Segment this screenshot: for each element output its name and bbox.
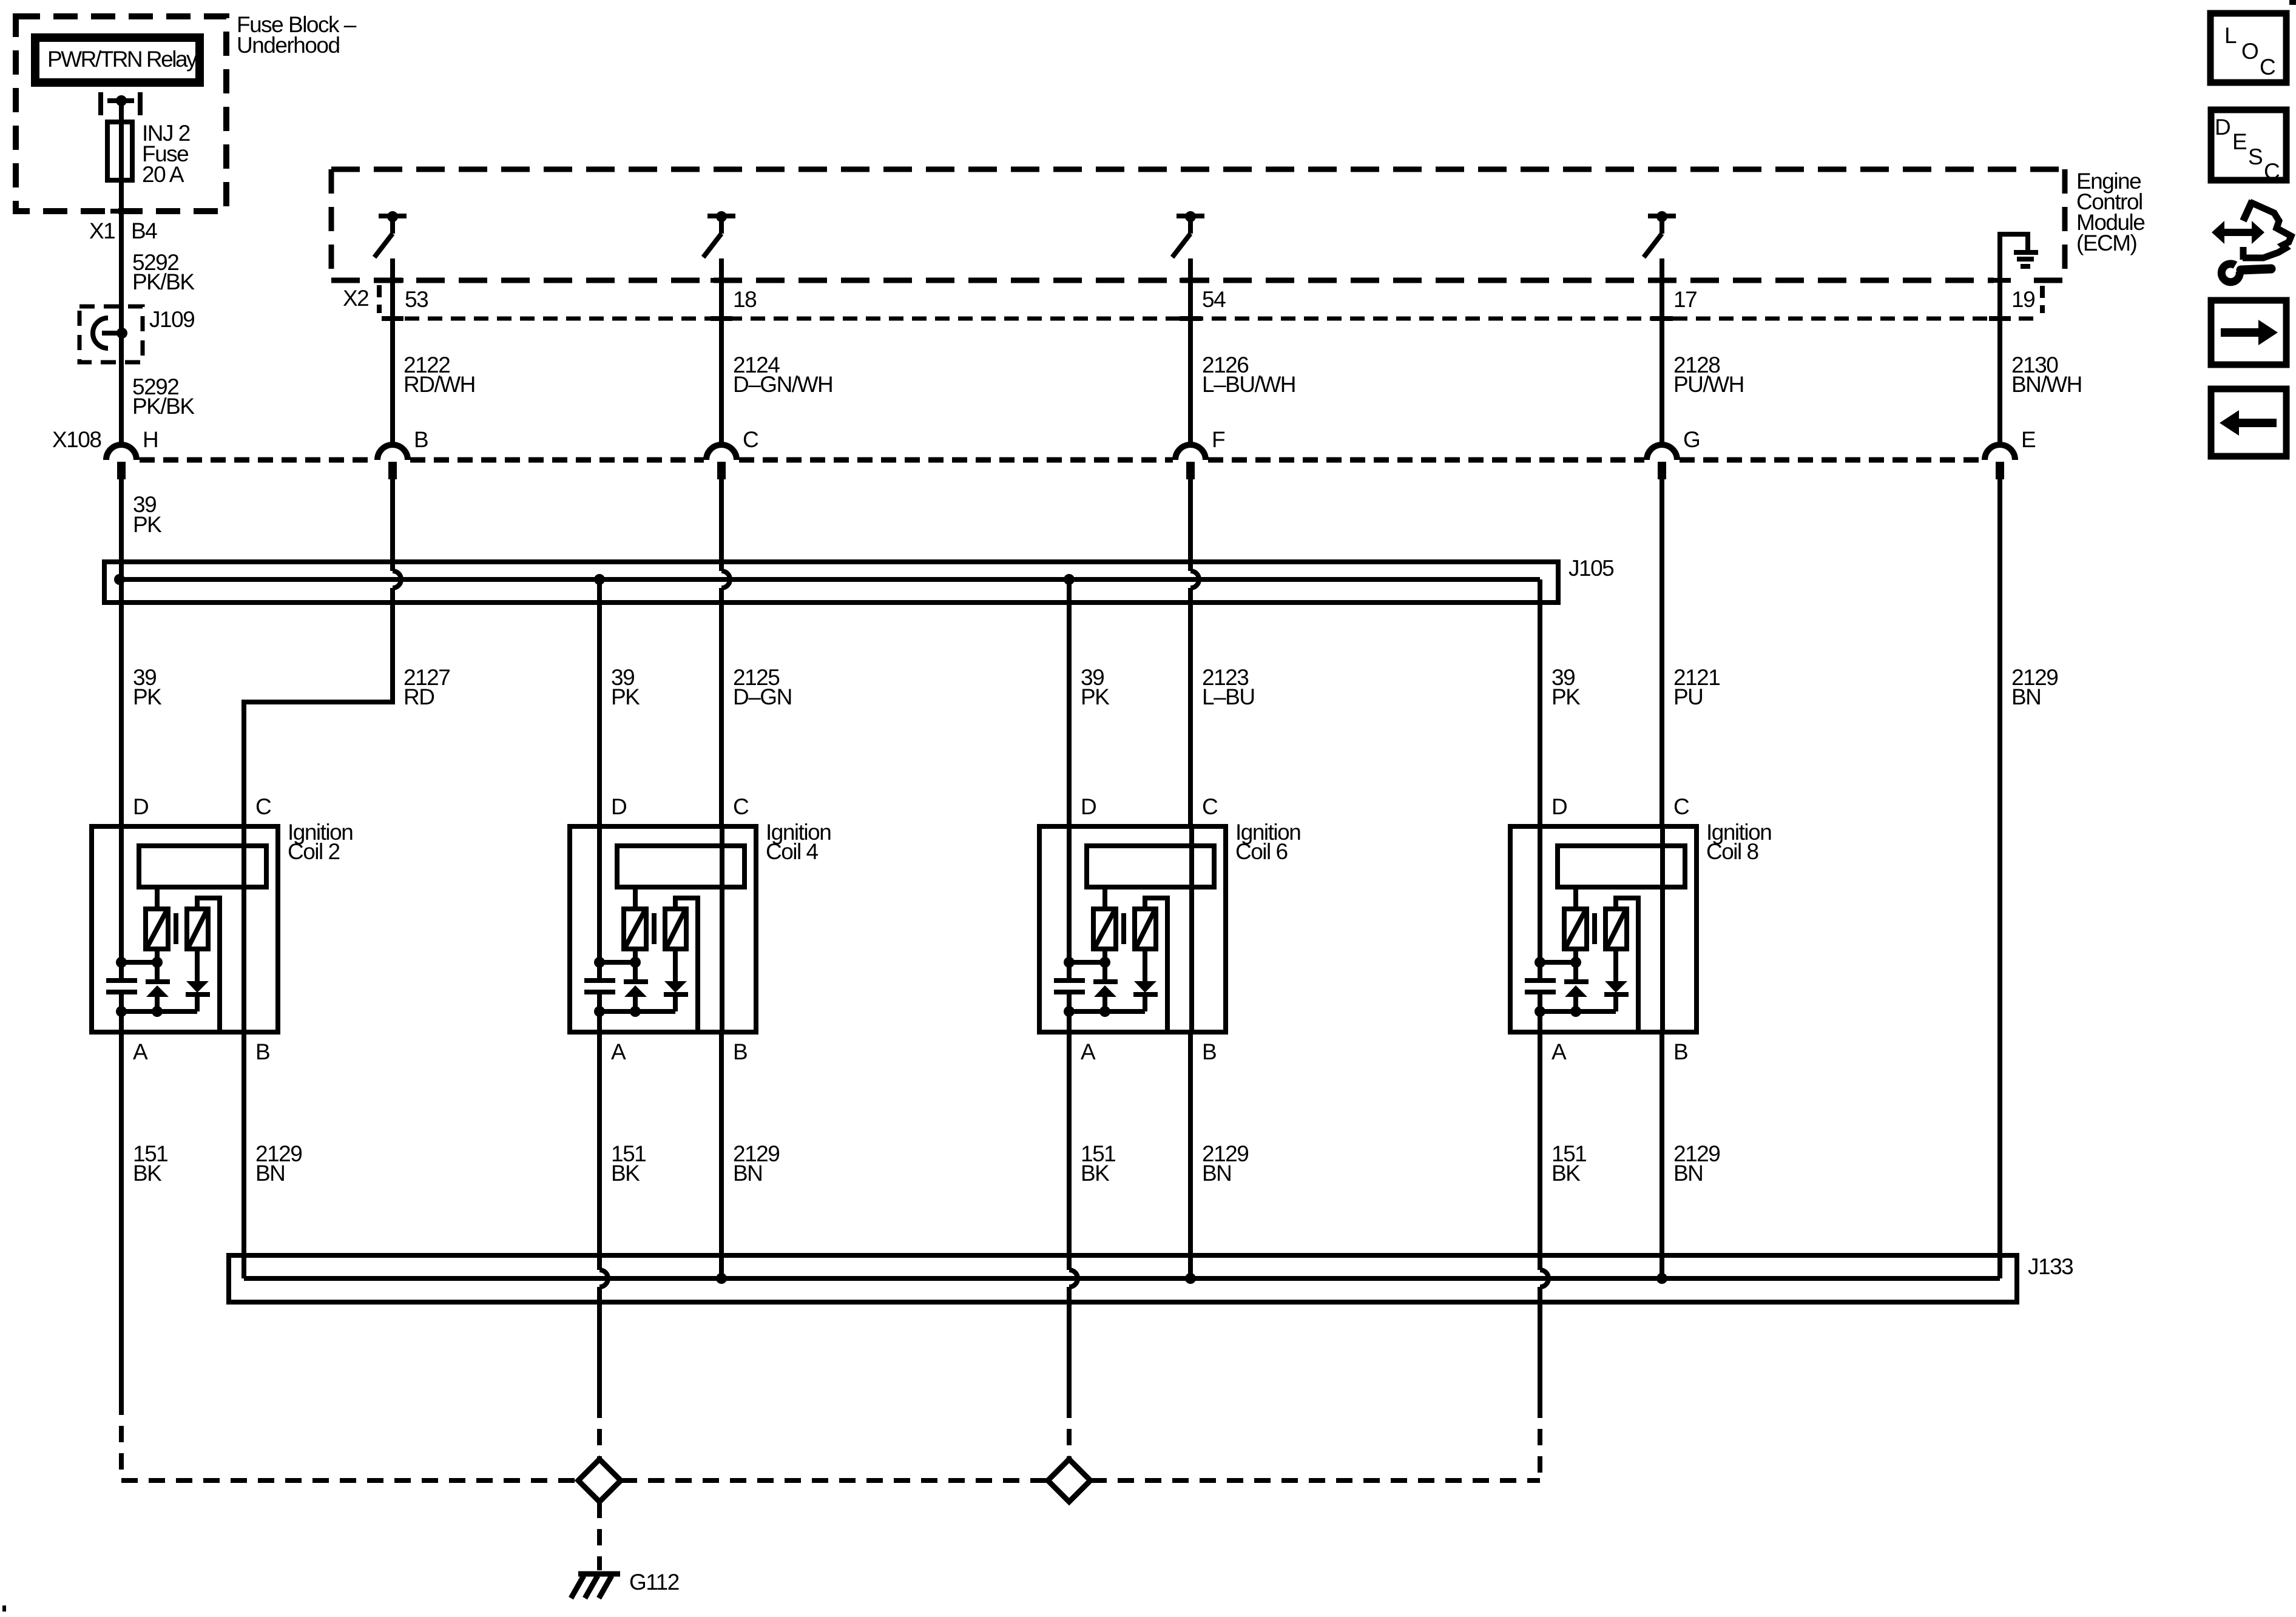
- svg-text:S: S: [2248, 144, 2262, 169]
- vehicle service icon: double arrow: [2212, 221, 2264, 244]
- hop of wire 2123 over bus: [1190, 571, 1199, 588]
- wire 2130 BN/WH: [1997, 280, 2002, 445]
- svg-text:C: C: [255, 794, 271, 819]
- wire 2129 BN coil 6 B to J133: [1188, 1032, 1193, 1278]
- ignition coil 4: [570, 826, 756, 1032]
- svg-text:PU: PU: [1673, 684, 1703, 709]
- svg-text:B: B: [414, 427, 428, 452]
- ECM driver 1: [374, 211, 407, 257]
- svg-text:D: D: [611, 794, 626, 819]
- svg-text:C: C: [1673, 794, 1689, 819]
- svg-text:C: C: [743, 427, 758, 452]
- svg-text:C: C: [1202, 794, 1218, 819]
- svg-text:Coil 4: Coil 4: [766, 839, 819, 864]
- wire 2129 BN coil 2 B to J133: [241, 1032, 246, 1278]
- svg-text:A: A: [1551, 1039, 1567, 1064]
- dashed ground bus line: [121, 1478, 578, 1483]
- fuse block underhood dashed box: [16, 16, 226, 211]
- wire 151 BK coil 8 A down: [1538, 1032, 1542, 1270]
- svg-text:BK: BK: [1081, 1161, 1110, 1186]
- DESC icon box: [2211, 110, 2286, 180]
- svg-text:A: A: [1081, 1039, 1096, 1064]
- back arrow icon box: [2211, 389, 2286, 456]
- junction dot coil 6 B: [1185, 1273, 1196, 1284]
- svg-text:Coil 8: Coil 8: [1706, 839, 1758, 864]
- svg-text:BK: BK: [611, 1161, 640, 1186]
- svg-text:L–BU: L–BU: [1202, 684, 1255, 709]
- svg-text:D: D: [1551, 794, 1567, 819]
- svg-text:PK/BK: PK/BK: [132, 269, 195, 294]
- wire 2127 RD crossing J105: [390, 479, 395, 571]
- splice diamond 1: [578, 1459, 621, 1502]
- junction dot H wire: [114, 574, 125, 585]
- vehicle service icon: body outline: [2243, 201, 2252, 221]
- wire coil 4 A below bus: [597, 1287, 602, 1402]
- connector pin C: [706, 445, 737, 479]
- dashed wire coil 2 A: [119, 1399, 124, 1478]
- X2 connector row dashed line: [382, 317, 2039, 321]
- wire 151 BK coil 6 A down: [1067, 1032, 1072, 1270]
- connector pin F: [1175, 445, 1206, 479]
- svg-text:G: G: [1683, 427, 1700, 452]
- wire 2122 RD/WH: [390, 258, 395, 445]
- splice pack J105 rectangle: [104, 562, 1558, 603]
- dashed wire diamond to G112: [597, 1502, 602, 1570]
- wire 2125 D-GN to coil 4 C: [719, 588, 724, 826]
- svg-text:B: B: [255, 1039, 269, 1064]
- connector pin B: [377, 445, 408, 479]
- wire fuse to X1: [119, 180, 124, 306]
- wire 2124 D-GN/WH: [719, 258, 724, 445]
- splice J109 dashed box: [79, 306, 143, 362]
- svg-text:X2: X2: [343, 286, 368, 311]
- wire 39 PK to coil 4 D: [597, 579, 602, 826]
- svg-text:18: 18: [733, 287, 756, 312]
- pin 19 bracket: [2040, 286, 2045, 313]
- svg-text:L: L: [2224, 23, 2237, 48]
- wire coil 8 A below bus: [1538, 1287, 1542, 1402]
- ignition coil 8: [1510, 826, 1697, 1032]
- wire 2123 L-BU to coil 6 C: [1188, 588, 1193, 826]
- svg-text:BN: BN: [1202, 1161, 1231, 1186]
- junction dot coil 8 B: [1656, 1273, 1667, 1284]
- splice clip symbol: [93, 318, 108, 348]
- svg-text:Underhood: Underhood: [237, 33, 340, 58]
- svg-text:B: B: [733, 1039, 747, 1064]
- forward arrow icon box: [2211, 300, 2286, 365]
- svg-text:BN: BN: [733, 1161, 762, 1186]
- relay output bracket: [98, 92, 103, 115]
- wire J109 to X108: [119, 306, 124, 445]
- wire 151 BK coil 4 A down: [597, 1032, 602, 1270]
- svg-text:J105: J105: [1568, 556, 1614, 581]
- ignition coil 6: [1039, 826, 1226, 1032]
- svg-text:PU/WH: PU/WH: [1673, 372, 1744, 397]
- svg-text:D–GN/WH: D–GN/WH: [733, 372, 832, 397]
- J133 bus middle wire: [244, 1276, 2000, 1281]
- svg-text:Coil 2: Coil 2: [288, 839, 340, 864]
- X2 bracket: [377, 285, 382, 313]
- hop of coil 4 A wire over bus: [599, 1270, 608, 1287]
- wire 151 BK coil 2 A down: [119, 1032, 124, 1399]
- svg-text:53: 53: [405, 287, 428, 312]
- svg-text:17: 17: [1673, 287, 1697, 312]
- ECM internal ground wire: [2000, 234, 2028, 280]
- svg-text:B: B: [1673, 1039, 1687, 1064]
- ECM dashed box left: [329, 169, 334, 280]
- J105 right end bend down to coil 8 D: [1538, 579, 1542, 826]
- dashed wire coil 6 A to diamond: [1067, 1402, 1072, 1459]
- wire 2126 L-BU/WH: [1188, 258, 1193, 445]
- svg-text:RD/WH: RD/WH: [403, 372, 475, 397]
- svg-text:E: E: [2021, 427, 2036, 452]
- ground G112 symbol: [578, 1571, 620, 1577]
- vehicle service icon: wrench: [2221, 264, 2240, 282]
- svg-text:PK: PK: [1551, 684, 1581, 709]
- wire 2129 BN right side down to J133: [1997, 479, 2002, 1278]
- svg-text:BN: BN: [1673, 1161, 1703, 1186]
- connector pin H: [106, 445, 137, 479]
- dashed wire coil 4 A to diamond: [597, 1402, 602, 1459]
- splice pack J133 rectangle: [229, 1255, 2017, 1302]
- svg-text:BK: BK: [133, 1161, 162, 1186]
- junction dot coil 6 D feed: [1064, 574, 1075, 585]
- ECM signal ground symbol: [2014, 250, 2038, 255]
- svg-text:PK: PK: [133, 684, 162, 709]
- dashed wire coil 8 A: [1538, 1402, 1542, 1478]
- wire 39 PK to coil 6 D: [1067, 579, 1072, 826]
- svg-text:E: E: [2232, 129, 2247, 154]
- ECM driver 2: [703, 211, 735, 257]
- svg-text:D: D: [2215, 115, 2230, 140]
- splice diamond 2: [1048, 1459, 1090, 1502]
- ECM driver 4: [1644, 211, 1676, 257]
- ECM dashed box right: [2062, 169, 2068, 280]
- wire 2128 PU/WH: [1660, 258, 1664, 445]
- J105 bus middle wire: [120, 577, 1540, 582]
- ECM driver 3: [1172, 211, 1204, 257]
- svg-text:H: H: [143, 427, 158, 452]
- ECM dashed box bottom: [331, 278, 1994, 283]
- svg-text:PK: PK: [611, 684, 640, 709]
- svg-text:PK: PK: [133, 512, 162, 537]
- svg-text:X108: X108: [52, 427, 101, 452]
- svg-text:L–BU/WH: L–BU/WH: [1202, 372, 1295, 397]
- X108 dotted row: [140, 457, 375, 463]
- svg-text:RD: RD: [403, 684, 434, 709]
- svg-text:Coil 6: Coil 6: [1235, 839, 1288, 864]
- connector pin E: [1985, 445, 2015, 479]
- wire coil 6 A below bus: [1067, 1287, 1072, 1402]
- svg-text:PWR/TRN Relay: PWR/TRN Relay: [47, 47, 198, 72]
- svg-text:J133: J133: [2028, 1254, 2073, 1279]
- splice dot: [116, 328, 127, 339]
- svg-text:B: B: [1202, 1039, 1216, 1064]
- page artifact marks: [2289, 0, 2296, 5]
- hop of coil 6 A wire over bus: [1069, 1270, 1078, 1287]
- relay output dot: [116, 95, 127, 106]
- svg-text:BN: BN: [255, 1161, 285, 1186]
- wire 2129 BN coil 4 B to J133: [719, 1032, 724, 1278]
- svg-text:A: A: [611, 1039, 626, 1064]
- hop of wire 2125 over bus: [721, 571, 730, 588]
- svg-text:20 A: 20 A: [142, 162, 184, 187]
- wire 39 PK from H to J105: [119, 479, 124, 579]
- junction dot coil 4 B: [716, 1273, 727, 1284]
- svg-text:A: A: [133, 1039, 148, 1064]
- svg-text:D: D: [133, 794, 148, 819]
- svg-text:54: 54: [1202, 287, 1226, 312]
- junction dot coil 4 D feed: [594, 574, 605, 585]
- hop of wire 2127 over bus: [393, 571, 401, 588]
- connector pin G: [1647, 445, 1677, 479]
- svg-text:J109: J109: [149, 307, 194, 332]
- tick at fuse block border: [110, 209, 132, 214]
- svg-text:B4: B4: [131, 218, 157, 243]
- fuse INJ 2 20A: [107, 122, 132, 180]
- svg-text:BN: BN: [2011, 684, 2041, 709]
- svg-text:G112: G112: [629, 1570, 679, 1595]
- PWR/TRN Relay box: [35, 38, 200, 83]
- svg-text:BK: BK: [1551, 1161, 1581, 1186]
- svg-text:O: O: [2241, 39, 2258, 64]
- svg-text:X1: X1: [89, 218, 115, 243]
- wire 39 PK to coil 2 D: [119, 579, 124, 826]
- hop of coil 8 A wire over bus: [1540, 1270, 1548, 1287]
- wire relay to fuse: [119, 101, 124, 122]
- ECM dashed box top: [331, 167, 2065, 172]
- svg-text:BN/WH: BN/WH: [2011, 372, 2082, 397]
- svg-text:19: 19: [2011, 287, 2034, 312]
- wire 2121 PU down to coil 8 C: [1660, 479, 1664, 826]
- wire 2129 BN coil 8 B to J133: [1660, 1032, 1664, 1278]
- wire 2125 D-GN crossing J105: [719, 479, 724, 571]
- wire 2123 L-BU crossing J105: [1188, 479, 1193, 571]
- LOC icon box: [2210, 13, 2286, 83]
- svg-text:PK: PK: [1081, 684, 1110, 709]
- svg-text:D–GN: D–GN: [733, 684, 792, 709]
- svg-text:(ECM): (ECM): [2076, 231, 2137, 255]
- svg-text:PK/BK: PK/BK: [132, 394, 195, 419]
- svg-text:F: F: [1212, 427, 1225, 452]
- svg-text:C: C: [2264, 159, 2280, 184]
- svg-text:C: C: [2260, 55, 2275, 79]
- wire 2127 RD jog to coil 2 C: [244, 588, 393, 826]
- ignition coil 2: [92, 826, 278, 1032]
- svg-text:D: D: [1081, 794, 1096, 819]
- svg-text:C: C: [733, 794, 749, 819]
